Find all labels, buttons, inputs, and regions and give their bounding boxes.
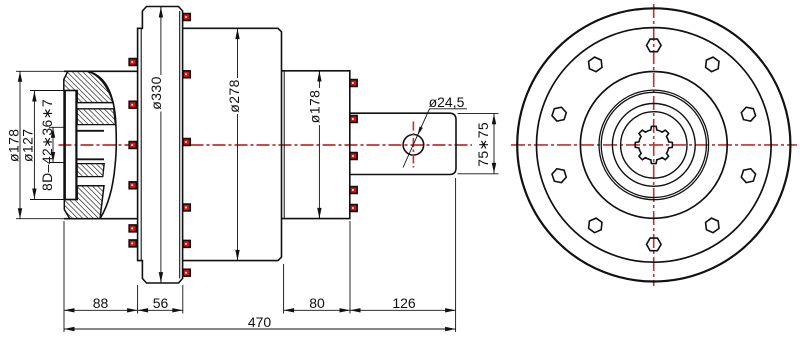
Ø178 cylinder (right) — [282, 71, 350, 219]
hex bolt B9 on bolt circle — [552, 107, 566, 121]
outer circle: flange OD Ø330 — [517, 8, 790, 281]
bolt head, end plate face #5 — [350, 205, 357, 212]
dim Ø330 (inside flange) — [160, 7, 162, 283]
bolt head, flange-to-drum, right face #2 — [183, 71, 190, 78]
svg-text:88: 88 — [93, 295, 109, 311]
horizontal red centerline of front view — [511, 144, 797, 146]
bolt head, end plate face #4 — [350, 187, 357, 194]
circle: cylinder Ø178 — [580, 71, 727, 218]
bolt head, flange-to-drum, right face #5 — [183, 241, 190, 248]
hex bolt B2 on bolt circle — [706, 57, 719, 72]
bolt head, cover-to-flange, left face #1 — [129, 59, 136, 66]
dim row 1 — [64, 309, 138, 311]
svg-text:126: 126 — [392, 295, 416, 311]
bolt head, flange-to-drum, right face #4 — [183, 204, 190, 211]
spline bore lines (8D-42*36*7) — [49, 127, 65, 162]
svg-text:75∗75: 75∗75 — [475, 122, 491, 167]
hex bolt B6 on bolt circle — [647, 238, 662, 251]
bolt head, cover-to-flange, left face #3 — [129, 142, 136, 149]
circle: hub boss outer — [612, 103, 695, 186]
vertical red centerline of front view — [653, 4, 655, 286]
svg-text:ø24,5: ø24,5 — [429, 94, 465, 110]
circle: drum OD Ø278 — [537, 28, 772, 263]
bolt head, flange-to-drum, right face #6 — [183, 269, 190, 276]
circle: hub boss inner — [621, 112, 687, 178]
hex bolt B7 on bolt circle — [589, 218, 602, 233]
dim 75*75 — [458, 113, 499, 173]
svg-text:ø330: ø330 — [148, 76, 164, 110]
hatched top block of hub housing — [64, 71, 113, 102]
bolt head, end plate face #3 — [350, 153, 357, 160]
bolt head, flange-to-drum, right face #1 — [183, 14, 190, 21]
square shaft 75*75 — [350, 113, 456, 174]
flange Ø330 disc — [138, 7, 183, 284]
svg-text:56: 56 — [153, 295, 169, 311]
bolt head, cover-to-flange, left face #6 — [129, 240, 136, 247]
leader Ø24,5 — [403, 109, 467, 168]
bolt head, cover-to-flange, left face #4 — [129, 182, 136, 189]
Ø127 extension lines — [30, 91, 64, 200]
circle: spigot Ø127 inner — [601, 92, 706, 197]
bolt head, cover-to-flange, left face #2 — [129, 101, 136, 108]
bolt head, end plate face #2 — [350, 116, 357, 123]
dim row 2 (470) — [64, 328, 456, 330]
dim Ø178 right — [318, 71, 320, 218]
part top edge Ø178 (left) + extension — [16, 70, 64, 72]
hex bolt B5 on bolt circle — [706, 218, 719, 233]
svg-text:ø178: ø178 — [306, 90, 322, 124]
central spline bore 8D-42*36*7 — [635, 126, 672, 163]
bolt head, cover-to-flange, left face #5 — [129, 225, 136, 232]
dim 8D-42*36*7 — [52, 127, 54, 162]
dim Ø178 left — [19, 71, 21, 218]
part bottom edge + extension — [16, 218, 64, 220]
svg-text:ø127: ø127 — [19, 129, 35, 163]
dim Ø127 — [33, 91, 35, 199]
hatched upper band — [77, 109, 115, 125]
svg-text:80: 80 — [309, 295, 325, 311]
hatched lower band — [77, 164, 104, 177]
hub housing outer curve (silhouette) — [87, 71, 116, 218]
brake drum Ø278 — [183, 28, 282, 260]
circle: spigot Ø127 outer — [599, 90, 709, 200]
hex bolt B3 on bolt circle — [741, 107, 755, 121]
hex bolt B10 on bolt circle — [589, 57, 602, 72]
bolt head, end plate face #1 — [350, 80, 357, 87]
svg-text:ø278: ø278 — [226, 79, 242, 113]
main horizontal centerline — [59, 144, 473, 146]
hatched bottom block of hub housing — [64, 186, 104, 219]
cover plate (left bearing plate) — [63, 91, 66, 200]
svg-text:8D–42∗36∗7: 8D–42∗36∗7 — [39, 99, 55, 191]
hex bolt B4 on bolt circle — [741, 169, 755, 183]
dim Ø278 — [237, 29, 239, 261]
hex bolt B8 on bolt circle — [552, 169, 566, 183]
shaft hole Ø24,5 — [403, 135, 424, 156]
bottom dimension extensions — [63, 221, 65, 332]
svg-text:470: 470 — [248, 314, 272, 330]
bolt head, flange-to-drum, right face #3 — [183, 139, 190, 146]
hex bolt B1 on bolt circle — [647, 39, 662, 52]
